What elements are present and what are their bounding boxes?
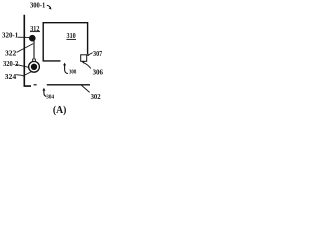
svg-text:320-2: 320-2 (3, 59, 18, 68)
svg-text:310: 310 (67, 31, 76, 40)
svg-text:307: 307 (93, 49, 102, 58)
leader arrow for 300-1 (47, 5, 50, 7)
arrow 304 (44, 90, 47, 96)
leader line 324 (16, 74, 23, 77)
trolley dot 320-1 (29, 35, 36, 42)
chamber box 310 (43, 23, 87, 61)
leader 302 (82, 85, 90, 92)
wheel hub connector (33, 59, 36, 62)
ground line 302 (47, 84, 90, 86)
leader arrow 307 (88, 53, 92, 55)
arrow 308 (65, 65, 68, 74)
leader 306 curved (83, 63, 90, 69)
leader line 322 (17, 44, 34, 53)
svg-text:300-1: 300-1 (30, 0, 46, 9)
svg-text:(A): (A) (53, 104, 67, 116)
svg-text:302: 302 (91, 92, 101, 101)
component square 307 (81, 55, 87, 62)
wheel 320-2 outer (29, 61, 40, 72)
svg-text:324: 324 (5, 72, 17, 81)
svg-text:308: 308 (69, 69, 76, 76)
svg-text:304: 304 (46, 94, 54, 101)
leader 324 diagonal segment to wheel (23, 72, 32, 77)
ground line 302 left dash (34, 84, 37, 86)
wheel 320-2 hub (31, 64, 37, 70)
leader line 320-1 (18, 36, 29, 38)
svg-text:320-1: 320-1 (2, 31, 18, 40)
hanger rod 322 (33, 41, 35, 62)
vertical rail 324 with foot (24, 15, 31, 86)
leader line 320-2 (16, 64, 29, 67)
svg-text:322: 322 (5, 49, 17, 58)
svg-text:306: 306 (93, 68, 104, 77)
